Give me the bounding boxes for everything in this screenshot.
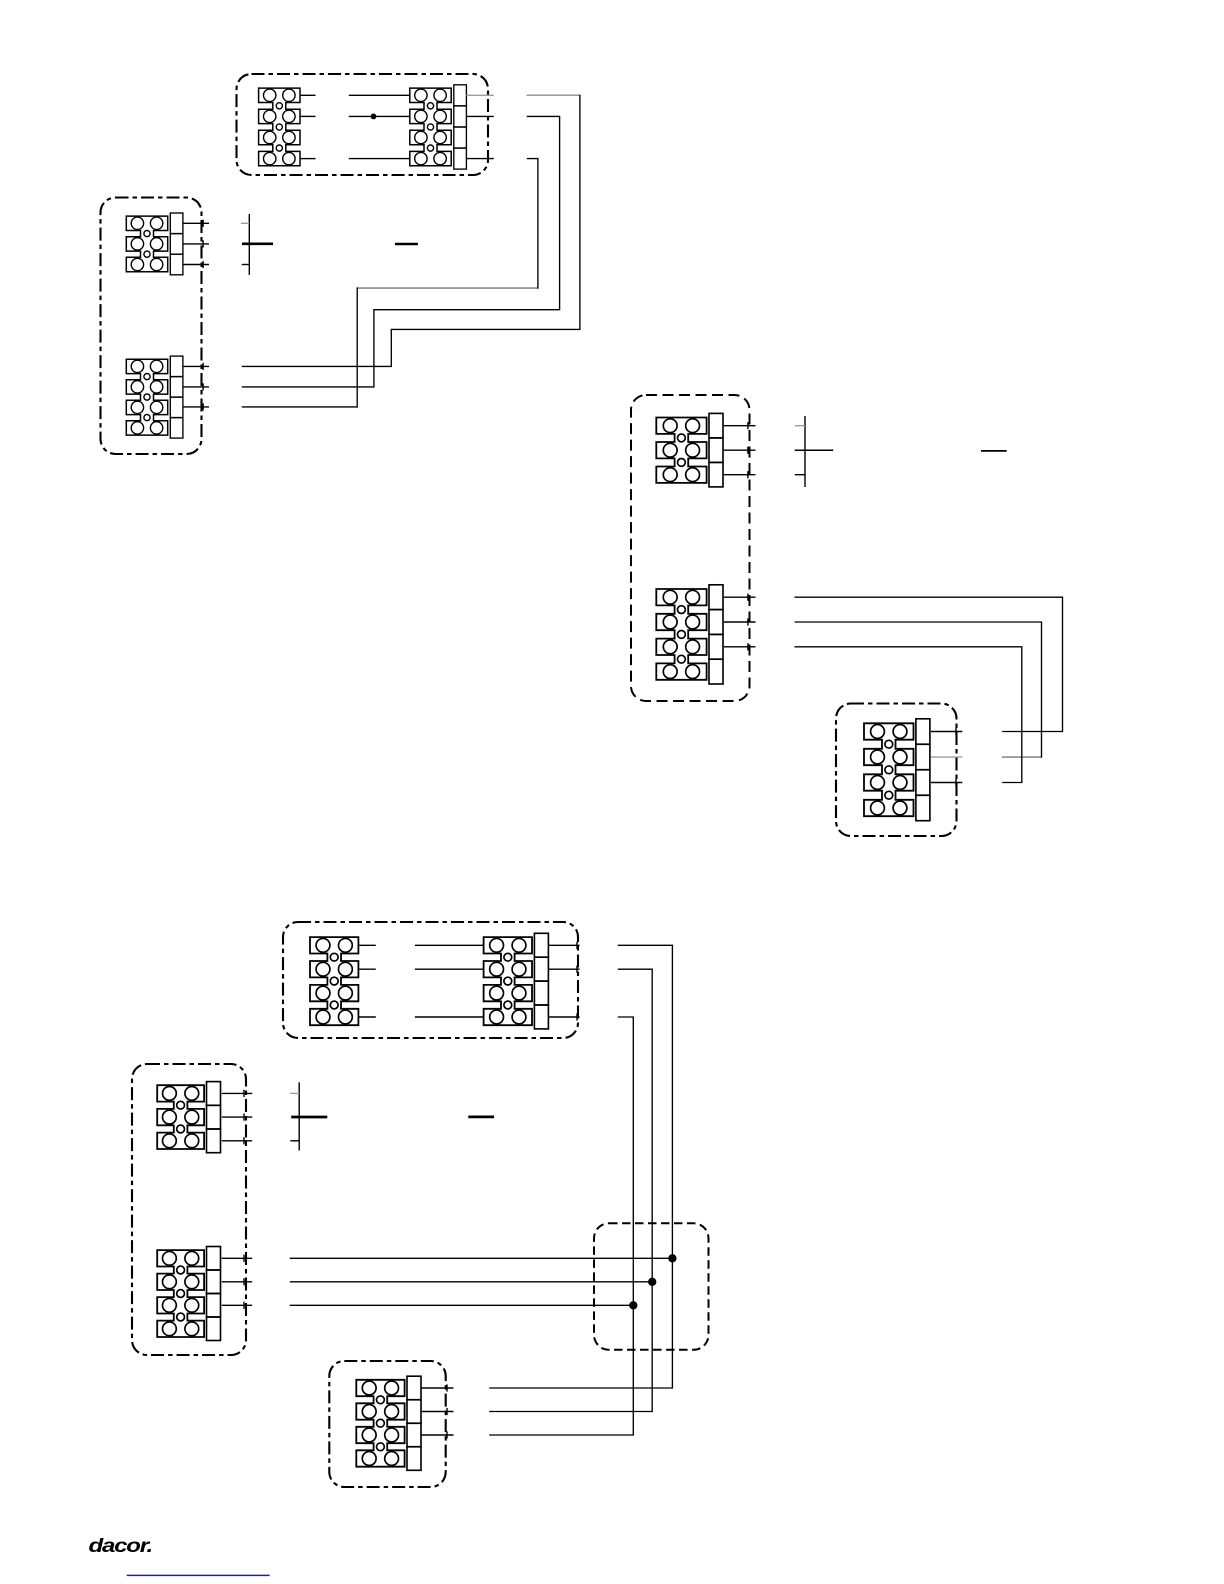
svg-text:dacor.: dacor. [89,1535,153,1557]
